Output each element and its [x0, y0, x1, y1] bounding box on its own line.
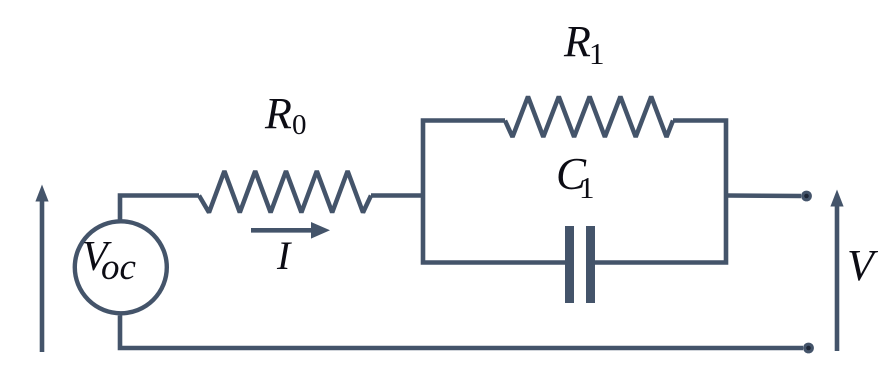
svg-text:R: R — [264, 89, 292, 138]
output voltage arrow — [830, 190, 843, 352]
wire: source top to R0 — [120, 196, 199, 220]
capacitor C1 plates — [570, 226, 591, 303]
resistor R0 — [199, 171, 371, 213]
svg-text:oc: oc — [101, 247, 137, 288]
svg-text:V: V — [847, 241, 879, 290]
svg-text:R: R — [563, 17, 591, 66]
svg-text:I: I — [276, 233, 292, 278]
node: bottom output terminal — [803, 343, 814, 354]
wire: RC block left side — [423, 121, 565, 263]
left voltage reference arrow — [35, 185, 48, 353]
voltage source U1 (Voc) — [75, 221, 167, 313]
wire: RC block right side — [595, 121, 726, 263]
svg-text:1: 1 — [589, 36, 605, 71]
label Voc — [82, 234, 137, 288]
wire: output top — [726, 193, 801, 198]
svg-text:0: 0 — [292, 109, 307, 141]
svg-text:1: 1 — [579, 170, 595, 205]
wire: source bottom and bottom rail — [120, 316, 803, 349]
label R1 — [563, 17, 605, 71]
node: top output terminal — [801, 191, 812, 202]
wire: R0 to RC block — [371, 193, 423, 198]
current arrow I — [251, 222, 330, 239]
label C1 — [556, 149, 595, 205]
resistor R1 — [505, 97, 673, 138]
label R0 — [264, 89, 307, 141]
